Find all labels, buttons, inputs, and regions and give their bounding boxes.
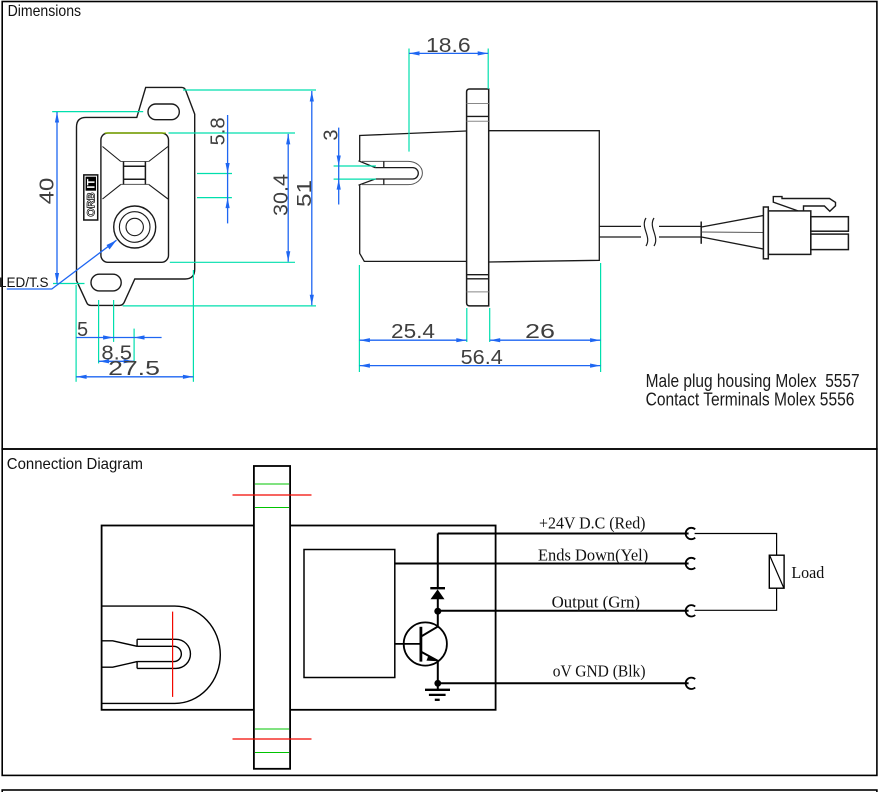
svg-text:51: 51	[294, 180, 316, 207]
svg-text:26: 26	[525, 321, 555, 343]
svg-text:25.4: 25.4	[391, 321, 435, 343]
svg-text:27.5: 27.5	[108, 358, 160, 380]
svg-text:40: 40	[37, 178, 59, 205]
svg-text:Connection Diagram: Connection Diagram	[7, 456, 143, 473]
svg-text:Output (Grn): Output (Grn)	[552, 593, 640, 612]
svg-text:18.6: 18.6	[426, 35, 471, 57]
svg-text:+24V D.C (Red): +24V D.C (Red)	[539, 514, 646, 533]
svg-text:56.4: 56.4	[461, 347, 503, 369]
svg-text:Dimensions: Dimensions	[8, 3, 82, 20]
svg-text:LED/T.S: LED/T.S	[0, 275, 49, 290]
svg-text:IT: IT	[85, 179, 97, 189]
svg-text:ORB: ORB	[85, 192, 97, 217]
svg-text:Load: Load	[791, 563, 824, 582]
svg-text:30.4: 30.4	[271, 174, 293, 216]
svg-text:5: 5	[77, 319, 88, 341]
svg-text:3: 3	[321, 129, 343, 140]
svg-text:Ends Down(Yel): Ends Down(Yel)	[538, 546, 648, 565]
svg-text:oV GND (Blk): oV GND (Blk)	[553, 662, 646, 681]
svg-text:Contact Terminals Molex 5556: Contact Terminals Molex 5556	[646, 389, 855, 410]
svg-text:5.8: 5.8	[208, 117, 230, 145]
